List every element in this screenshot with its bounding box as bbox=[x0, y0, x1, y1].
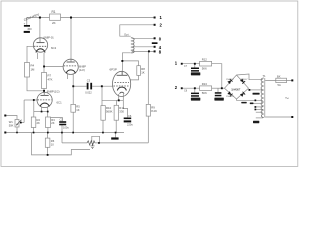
tube V4 triode input bbox=[37, 92, 62, 107]
wire bottom left tap bbox=[256, 117, 263, 119]
svg-text:330: 330 bbox=[119, 109, 124, 113]
wire feedback horizontal left bbox=[62, 142, 87, 144]
label speaker common bar bbox=[152, 42, 158, 44]
wire tubeC left leg bbox=[41, 107, 43, 112]
wire heater tap c bbox=[255, 108, 263, 110]
wire lower loop left bbox=[32, 133, 91, 155]
node bottom vertex tap bbox=[255, 100, 257, 102]
svg-text:C2: C2 bbox=[60, 117, 64, 121]
node psu bridge junction bbox=[221, 87, 223, 89]
svg-text:R1: R1 bbox=[52, 10, 56, 14]
node tubeB cathode junction bbox=[72, 85, 74, 87]
ground chassis glyph bbox=[90, 143, 94, 149]
wire chassis bar stub bbox=[114, 133, 116, 138]
wire tubeC right leg bbox=[47, 107, 49, 117]
svg-text:BX: BX bbox=[277, 74, 281, 78]
wire C2 bottom stem bbox=[61, 125, 63, 132]
svg-text:6C2: 6C2 bbox=[51, 46, 57, 50]
resistor R7 bbox=[42, 73, 53, 89]
label voltage blob right vertex bbox=[253, 93, 260, 95]
wire bridge top AC bbox=[237, 74, 263, 80]
terminal mains live bbox=[291, 79, 293, 81]
wire grid leak drop bbox=[101, 86, 103, 105]
node heater tap b bbox=[255, 106, 257, 108]
terminal 1 bbox=[154, 15, 163, 20]
wire heater tap b bbox=[255, 106, 263, 108]
svg-text:2K: 2K bbox=[52, 21, 56, 25]
wire R4 bottom to node bbox=[27, 77, 44, 91]
tube V3 output 6P3P bbox=[110, 67, 131, 96]
wire R2 top riser bbox=[33, 100, 35, 117]
node feedback junction bbox=[148, 50, 150, 52]
op-amp none: tube V1 triode bbox=[33, 35, 56, 52]
node bus junction C2 feedback bbox=[61, 132, 63, 134]
svg-text:1K: 1K bbox=[76, 108, 79, 112]
wire tubeB cathode down bbox=[72, 74, 74, 105]
node bus junction R3 bbox=[47, 132, 49, 134]
diode D2 bbox=[240, 78, 245, 83]
wire R7 bottom bbox=[43, 89, 45, 91]
node cathode leg junction bbox=[41, 111, 43, 113]
wire terminal2 run bbox=[120, 25, 155, 36]
label voltage blob bottom bbox=[241, 102, 246, 104]
inductor OPT winding bbox=[131, 38, 134, 53]
wire psu row1 bbox=[182, 63, 200, 65]
svg-text:~: ~ bbox=[285, 94, 290, 103]
wire C7 stem bbox=[194, 64, 196, 68]
svg-text:50K: 50K bbox=[9, 123, 14, 127]
fuse BX1 bbox=[276, 74, 287, 87]
svg-text:220u: 220u bbox=[127, 123, 133, 127]
svg-text:R13: R13 bbox=[202, 82, 208, 86]
wire OPT tap 8 bbox=[132, 50, 155, 52]
resistor R10 grid resistor bbox=[101, 106, 113, 121]
wire input jack to pot bbox=[5, 116, 17, 120]
terminal psu 2 bbox=[175, 85, 188, 92]
svg-text:1N4007: 1N4007 bbox=[226, 96, 234, 98]
svg-text:6C1: 6C1 bbox=[57, 100, 63, 104]
node screen junction bbox=[121, 60, 123, 62]
svg-text:C6: C6 bbox=[128, 114, 132, 118]
capacitor C3 coupling bbox=[85, 78, 92, 94]
svg-text:6P3P: 6P3P bbox=[110, 67, 117, 71]
wire coupling cap to tubeD grid bbox=[92, 85, 113, 87]
svg-text:560K: 560K bbox=[106, 109, 113, 113]
wire ground bus bbox=[5, 132, 124, 134]
svg-text:R12: R12 bbox=[202, 58, 208, 62]
wire psu row1 to junction bbox=[212, 64, 222, 88]
wire tubeD cathode horizontal bbox=[102, 99, 123, 101]
ground chassis bar bbox=[111, 137, 118, 139]
wire OPT primary bottom to anode bbox=[122, 53, 130, 76]
capacitor C9 filter bbox=[214, 92, 223, 100]
capacitor C1 filter bbox=[23, 12, 40, 33]
resistor R13 bbox=[200, 82, 212, 95]
wire tubeC grid run bbox=[24, 99, 37, 101]
terminal 0 bbox=[154, 36, 162, 41]
wire OPT tap 0 bbox=[132, 37, 155, 39]
svg-text:Opt: Opt bbox=[124, 33, 129, 37]
terminal 2 bbox=[154, 23, 163, 28]
node grid junction bbox=[101, 85, 103, 87]
resistor R1 plate load bbox=[50, 10, 61, 25]
wire cathode link bbox=[34, 111, 48, 113]
capacitor C7 filter bbox=[191, 68, 200, 76]
wire tubeB left leg bbox=[66, 74, 68, 80]
wire feedback riser to bus bbox=[61, 133, 63, 143]
tube V2 triode bbox=[63, 59, 86, 74]
resistor R4 grid leak 1M bbox=[25, 63, 36, 78]
wire psu row2 to bridge bbox=[212, 87, 225, 89]
svg-text:1N4007: 1N4007 bbox=[240, 79, 248, 81]
diode D4 bbox=[240, 92, 245, 97]
svg-text:2K: 2K bbox=[51, 121, 54, 125]
resistor R8 screen bbox=[137, 66, 145, 76]
diode D1 bbox=[227, 79, 232, 84]
svg-text:5K6: 5K6 bbox=[202, 66, 207, 70]
node tubeC anode junction bbox=[43, 90, 45, 92]
wire C8 stem bbox=[194, 88, 196, 92]
node heater tap c bbox=[255, 109, 257, 111]
potentiometer W1 volume bbox=[9, 120, 22, 128]
svg-text:100u: 100u bbox=[63, 125, 69, 129]
svg-text:(1/2): (1/2) bbox=[79, 68, 85, 72]
wire tubeC anode stem bbox=[43, 91, 45, 93]
svg-text:47K: 47K bbox=[48, 78, 53, 82]
terminal psu 1 bbox=[175, 60, 188, 68]
svg-text:1N4007: 1N4007 bbox=[226, 79, 234, 81]
bridge diamond edges bbox=[225, 75, 249, 99]
node tubeA cathode junction bbox=[43, 66, 45, 68]
wire feedback vertical bottom bbox=[147, 116, 149, 143]
diode D3 bbox=[227, 91, 232, 96]
wire R10 bottom bbox=[102, 120, 104, 132]
svg-text:1M: 1M bbox=[31, 68, 36, 72]
node bus junction R10 bbox=[102, 132, 104, 134]
wire zigzag shunt loop bbox=[92, 136, 100, 143]
wire feedback vertical top bbox=[147, 51, 149, 104]
wire psu row2 bbox=[182, 87, 200, 89]
wire C2 top link bbox=[51, 117, 63, 121]
transformer T1 winding bbox=[261, 78, 264, 118]
resistor R2 bbox=[31, 117, 40, 128]
node bus junction R2 bbox=[33, 132, 35, 134]
node zigzag right junction bbox=[98, 142, 100, 144]
wire heater tap a bbox=[251, 102, 263, 104]
wire hum resistor bottom stem bbox=[47, 147, 49, 155]
svg-text:10: 10 bbox=[51, 142, 54, 146]
wire R11 top stem bbox=[116, 100, 118, 105]
wire tubeA cathode chain bbox=[43, 53, 45, 73]
node tubeD cathode junction bbox=[118, 99, 120, 101]
svg-text:0.022: 0.022 bbox=[85, 91, 92, 95]
node pot wiper junction bbox=[20, 122, 22, 124]
wire R5 bottom bbox=[72, 112, 74, 132]
terminal 4 bbox=[154, 45, 162, 50]
svg-text:R5: R5 bbox=[76, 105, 80, 109]
svg-text:8.2K: 8.2K bbox=[151, 109, 157, 113]
wire OPT tap 4 bbox=[132, 46, 155, 48]
node rail junction A bbox=[39, 17, 41, 19]
resistor R9 feedback bbox=[146, 104, 157, 116]
node bus junction chassis bbox=[115, 132, 117, 134]
node psu junction C7 bbox=[194, 63, 196, 65]
svg-text:450: 450 bbox=[27, 27, 32, 31]
node tubeC grid junction bbox=[33, 99, 35, 101]
node psu junction C8 bbox=[194, 87, 196, 89]
wire feedback horizontal right bbox=[95, 142, 148, 144]
resistor R6 hum bbox=[45, 138, 54, 147]
wire bridge bottom AC bbox=[237, 99, 263, 100]
resistor R3 bbox=[46, 117, 56, 128]
svg-text:R3: R3 bbox=[51, 118, 55, 122]
svg-text:2K: 2K bbox=[37, 121, 40, 125]
wire B+ rail bbox=[27, 17, 155, 19]
wire mains live bbox=[265, 79, 291, 81]
wire heater tap d bbox=[256, 111, 263, 113]
resistor R12 bbox=[200, 58, 212, 71]
node rail junction B bbox=[70, 17, 72, 19]
node bus junction R5 bbox=[72, 132, 74, 134]
wire mains neutral bbox=[265, 116, 291, 118]
wire R2 bottom bbox=[33, 128, 35, 133]
svg-text:1K: 1K bbox=[141, 71, 145, 75]
wire tubeA anode stem bbox=[39, 18, 41, 39]
svg-text:R2: R2 bbox=[37, 118, 41, 122]
wire tubeD right leg to C6 bbox=[123, 94, 127, 117]
svg-text:1N4007: 1N4007 bbox=[231, 87, 241, 91]
wire hum resistor stems bbox=[47, 133, 49, 139]
node cathode leg junction right bbox=[47, 111, 49, 113]
wire node to tubeB grid bbox=[44, 65, 63, 67]
wire tubeA grid to R4 bbox=[27, 46, 33, 62]
wire pot wiper link bbox=[21, 122, 24, 124]
capacitor C6 cathode bypass bbox=[124, 114, 134, 127]
resistor R5 bbox=[71, 104, 80, 112]
wire C9 stem bbox=[217, 88, 219, 92]
wire R11 bottom bbox=[115, 120, 117, 132]
svg-text:6N8P(1/2): 6N8P(1/2) bbox=[47, 89, 60, 93]
capacitor C8 filter bbox=[191, 93, 200, 101]
wire pot bottom bbox=[16, 127, 18, 133]
transformer T1 core line bbox=[264, 78, 266, 118]
capacitor C2 cathode bypass bbox=[59, 117, 69, 129]
wire tubeA left leg bbox=[37, 53, 39, 59]
wire tubeB anode stem bbox=[70, 18, 72, 60]
wire tubeC grid to pot wiper riser bbox=[23, 100, 25, 123]
terminal input signal bbox=[4, 115, 6, 117]
terminal mains neutral bbox=[291, 116, 293, 118]
svg-text:5A: 5A bbox=[278, 83, 281, 87]
svg-text:6N8P-01: 6N8P-01 bbox=[44, 35, 55, 39]
node bus junction pot bbox=[16, 132, 18, 134]
node bridge right vertex bbox=[249, 89, 251, 91]
wire tubeD left leg bbox=[118, 94, 120, 100]
svg-text:5K6: 5K6 bbox=[202, 91, 207, 95]
svg-text:C3: C3 bbox=[87, 78, 91, 82]
svg-text:R6: R6 bbox=[51, 139, 55, 143]
terminal 8 bbox=[154, 50, 162, 55]
wire bridge right AC bbox=[249, 89, 263, 91]
wire R3 bottom bbox=[47, 128, 49, 133]
wire R8 bottom to screen bbox=[130, 75, 138, 80]
resistor R11 cathode resistor bbox=[114, 105, 125, 120]
wire coupling node run bbox=[73, 85, 86, 87]
wire C1 stem bbox=[26, 18, 28, 26]
wire screen tap bbox=[122, 61, 138, 66]
resistor RT zigzag bbox=[87, 141, 95, 145]
label voltage blob heater a bbox=[250, 103, 254, 105]
label voltage blob bottom left bbox=[253, 121, 259, 124]
terminal input ground bbox=[4, 132, 6, 134]
node lower bus junction bbox=[47, 154, 49, 156]
